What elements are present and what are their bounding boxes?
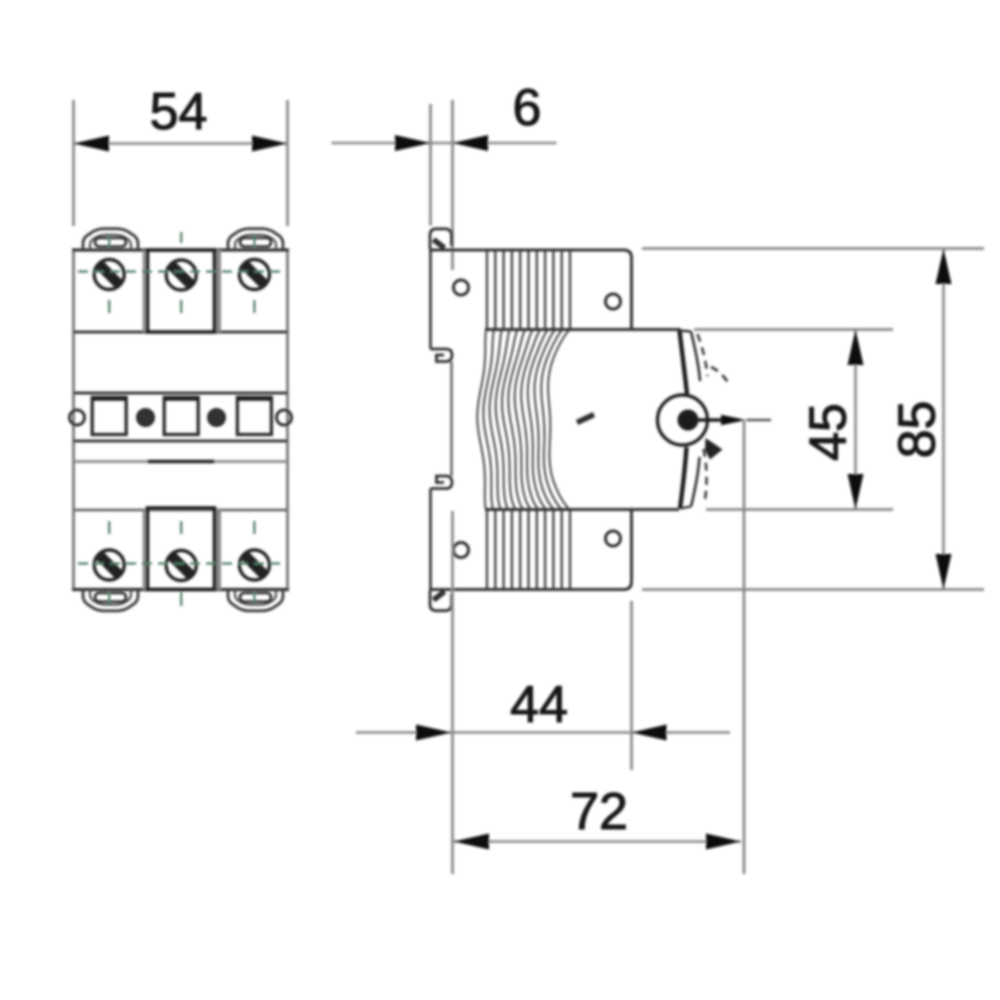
side view bottom latch [430, 591, 452, 611]
front view toggle link pin left edge [70, 410, 85, 425]
dimension 6 arrow right [453, 135, 489, 151]
front view toggle handle pole3 [237, 398, 271, 435]
front view bottom clip left [83, 590, 138, 611]
front view middle pole block bottom [148, 508, 215, 590]
side view back edge bottom segment [429, 489, 432, 590]
svg-text:72: 72 [570, 783, 628, 841]
dimension 6 arrow left [395, 135, 431, 151]
front view top clip left [83, 229, 138, 250]
front view horizontal parting lines [74, 331, 288, 334]
svg-text:44: 44 [510, 676, 568, 734]
dimension 85 extension top [642, 247, 984, 250]
front view toggle link pin 2 [138, 410, 154, 426]
front view terminal screw bottom-left [94, 550, 124, 580]
side view face mark [577, 415, 594, 423]
side view toggle lever up dashed alt [698, 334, 708, 376]
dimension 85 extension bottom [642, 588, 984, 591]
side view rivet top-right [606, 294, 621, 309]
side view rivet top-left [454, 280, 469, 295]
dimension 72 extension toggle tip [743, 420, 746, 874]
front view terminal screw bottom-middle [166, 551, 196, 581]
green centerline bottom row [78, 521, 283, 606]
side view toggle lever down solid [680, 447, 687, 509]
front view toggle link pin 3 [209, 410, 225, 426]
side view toggle wedge [705, 438, 723, 460]
front view terminal screw top-right [239, 260, 269, 290]
dimension 45 extension top [694, 328, 893, 331]
side view toggle pivot dot [678, 410, 699, 431]
front view terminal screw top-middle [166, 260, 196, 290]
dimension 54 extension line right [286, 100, 289, 226]
dimension 44 arrow left [416, 725, 452, 741]
front view pole dividers top row [143, 250, 146, 332]
dimension 72 arrow left [454, 834, 490, 850]
side view toggle lever up solid [680, 331, 688, 395]
dimension 85 arrow top [936, 249, 952, 285]
dimension 44 arrow right [632, 725, 667, 741]
side view back edge top segment [429, 250, 432, 349]
green centerline top row [78, 232, 283, 313]
svg-text:45: 45 [800, 403, 858, 461]
front view bottom clip right [228, 590, 283, 611]
side view DIN rail hook bottom [431, 476, 453, 489]
dimension 44/72 extension rail plane [451, 511, 454, 874]
side view rivet bottom-right [606, 531, 621, 546]
front view pole dividers bottom row [143, 510, 146, 590]
front view toggle link pin right edge [277, 410, 292, 425]
dimension 85 arrow bottom [936, 554, 952, 590]
side view protrusion top edge [485, 328, 681, 331]
dimension 45 extension bottom [706, 508, 893, 511]
dimension 6 line [332, 142, 557, 145]
side view toggle lever down dashed alt [704, 449, 707, 500]
dimension 44 extension front face [630, 601, 633, 770]
front view toggle handle pole1 [92, 398, 126, 435]
dimension 72 arrow right [706, 834, 741, 850]
side view rivet bottom-left [454, 543, 469, 558]
dimension 44 line [356, 731, 730, 734]
side view moulding wave lines [477, 330, 569, 509]
side view rail channel edge [450, 362, 453, 477]
dimension 72 line [454, 840, 742, 843]
front view terminal screw top-left [94, 260, 124, 290]
front view terminal screw bottom-right [239, 550, 269, 580]
svg-text:54: 54 [150, 83, 208, 141]
front view body outline [72, 250, 75, 590]
dimension 6 extension line left [429, 104, 432, 226]
dimension 6 extension line right [451, 100, 454, 270]
side view toggle knob ring [658, 395, 708, 445]
dimension 85 line [942, 249, 945, 590]
dimension 45 arrow top [848, 330, 864, 366]
side view toggle tip leader [688, 418, 726, 421]
dimension 45 line [854, 330, 857, 510]
side view bottom edge [429, 510, 632, 590]
dimension 54 extension line left [72, 100, 75, 226]
dimension 54 arrow left [74, 136, 110, 152]
dimension 54 arrow right [252, 136, 288, 152]
side view protrusion bottom edge [485, 508, 679, 511]
svg-text:6: 6 [513, 79, 542, 137]
front view toggle handle pole2 [164, 398, 198, 435]
front view toggle handle top edges [92, 396, 127, 401]
side view top edge [429, 250, 632, 330]
svg-text:85: 85 [889, 401, 947, 459]
dimension 54 line [74, 142, 288, 145]
side view DIN rail hook top [431, 349, 453, 362]
dimension 45 arrow bottom [848, 474, 864, 510]
side view ribs bottom [487, 511, 570, 588]
front view middle pole block top [148, 250, 215, 332]
side view top latch [430, 229, 452, 249]
side view ribs top [487, 252, 570, 329]
front view top clip right [228, 229, 283, 250]
